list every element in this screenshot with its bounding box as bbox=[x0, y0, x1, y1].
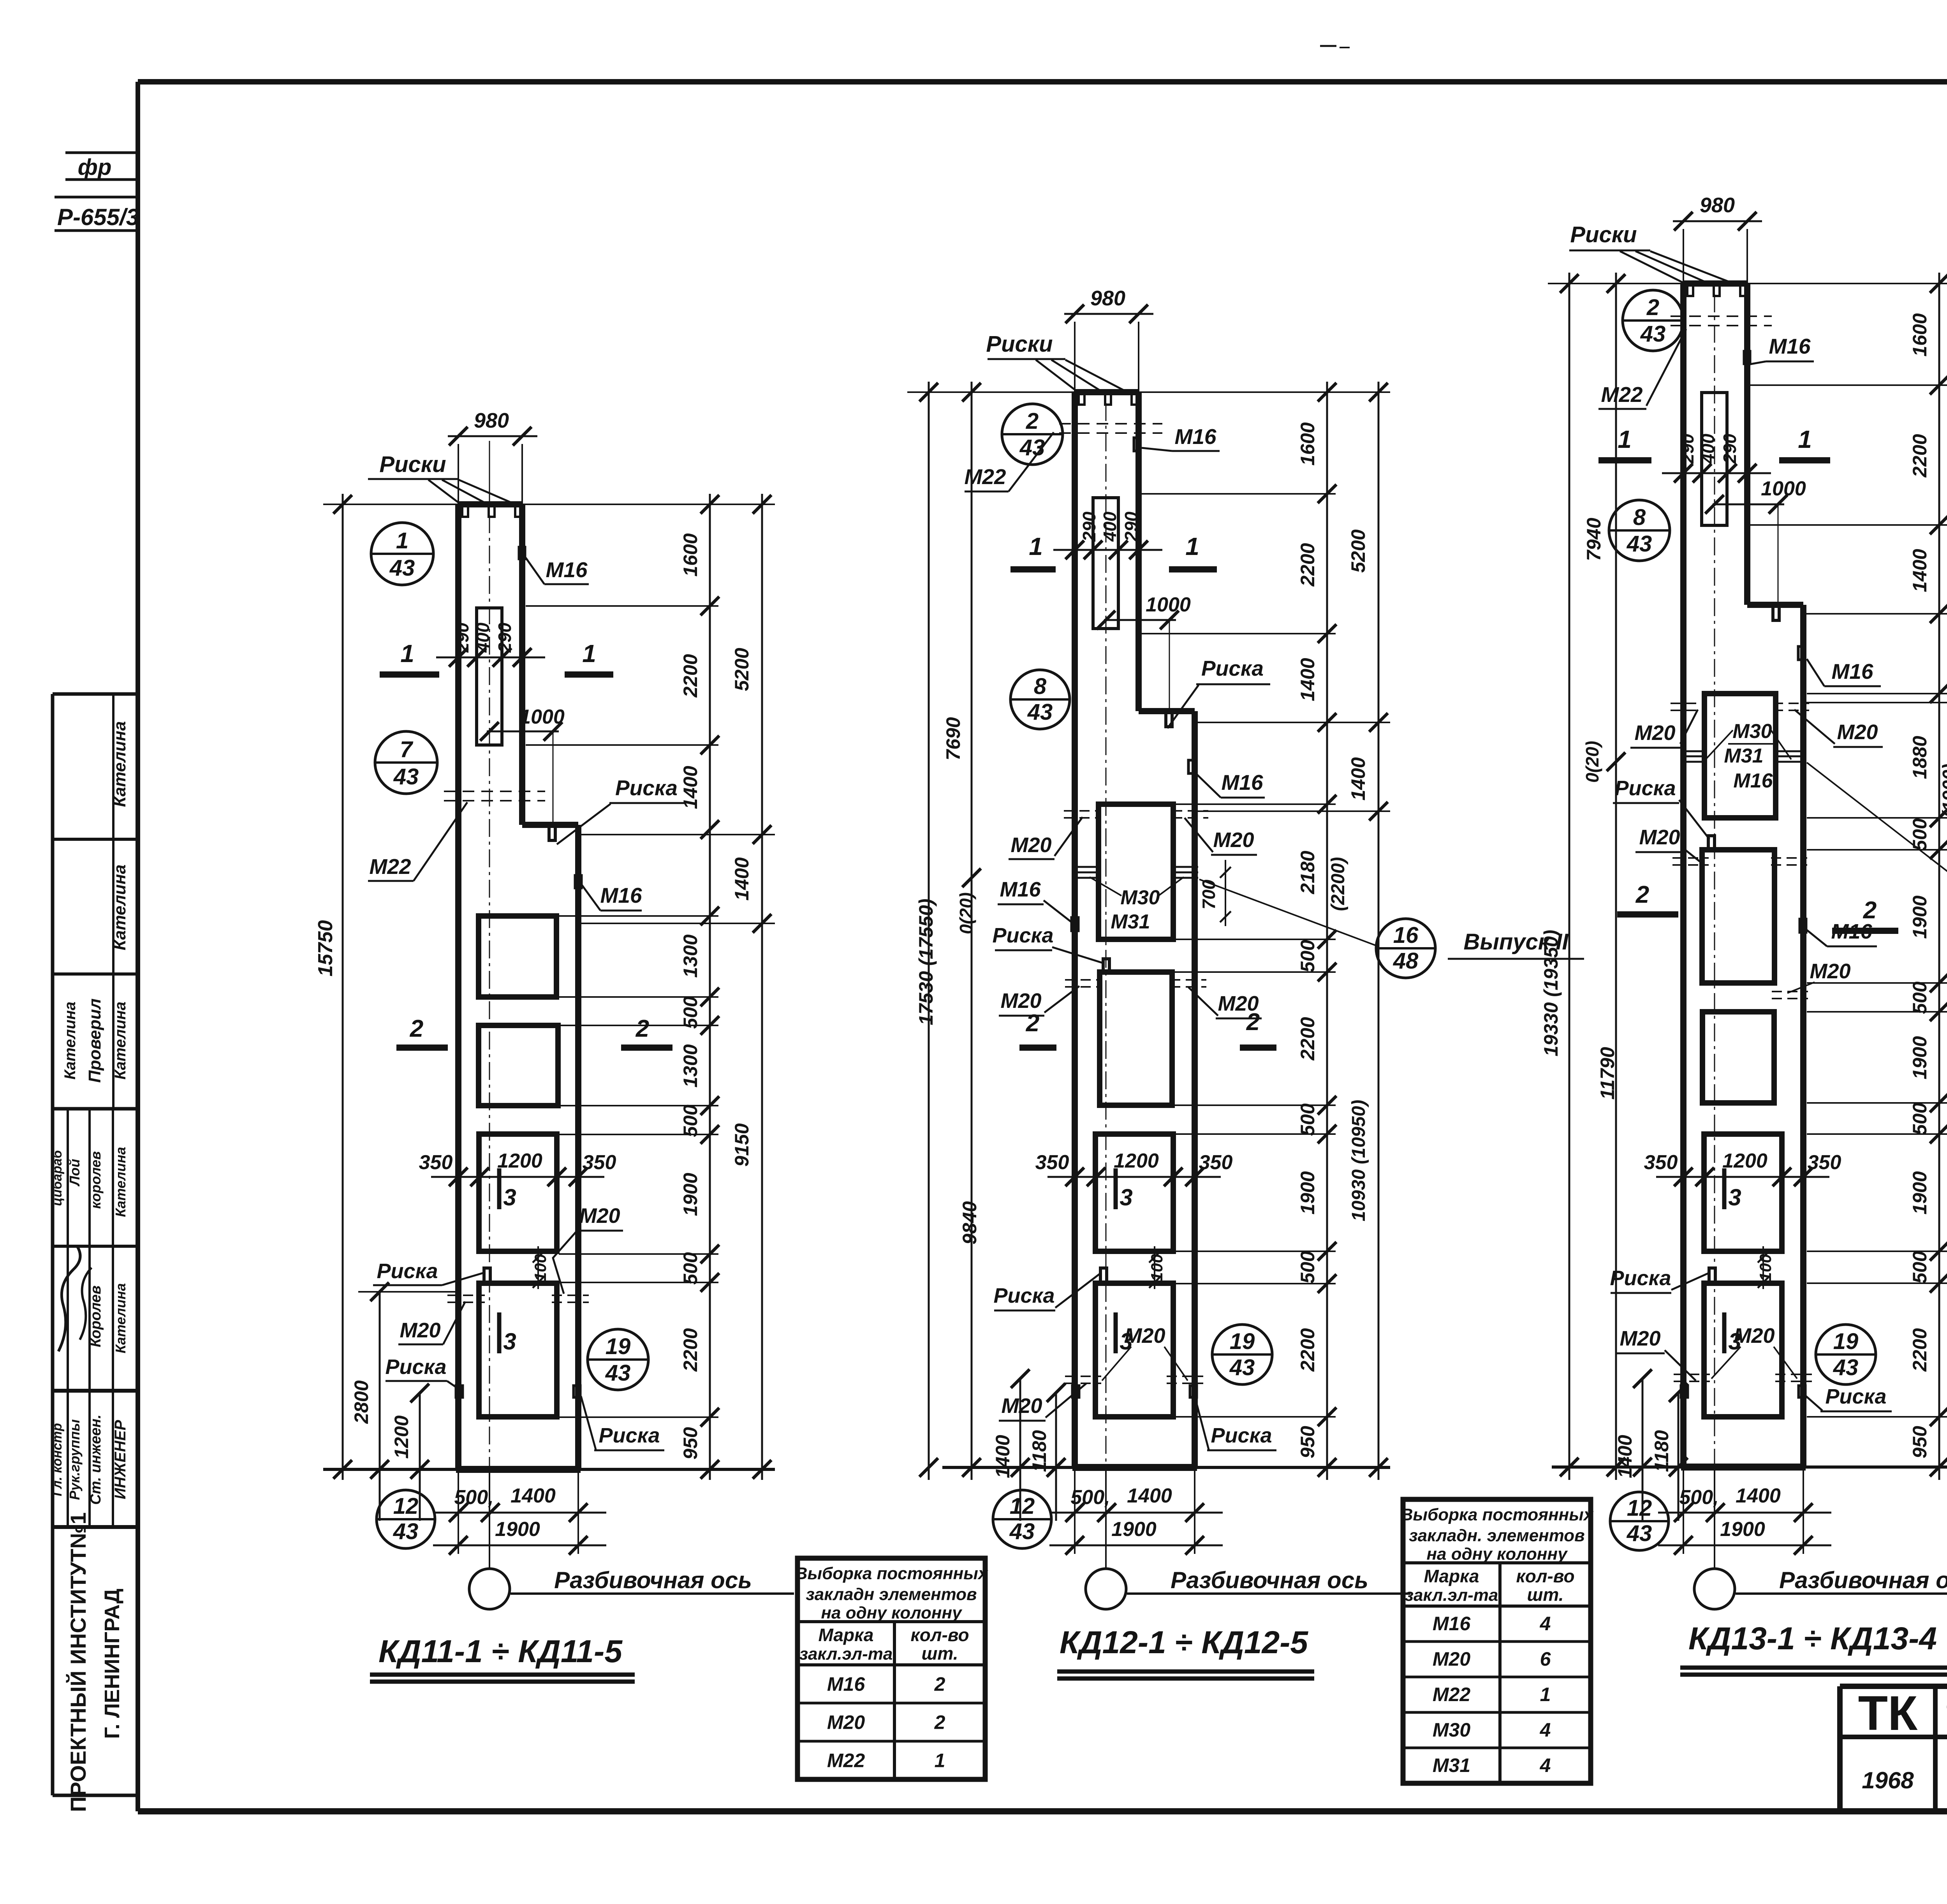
svg-text:12: 12 bbox=[393, 1494, 419, 1519]
svg-text:Кателина: Кателина bbox=[112, 1002, 129, 1080]
svg-text:290: 290 bbox=[1121, 511, 1141, 542]
svg-text:7: 7 bbox=[400, 737, 414, 762]
svg-text:43: 43 bbox=[1640, 321, 1666, 347]
svg-text:(1900): (1900) bbox=[1939, 764, 1947, 818]
svg-text:2200: 2200 bbox=[1909, 1328, 1931, 1372]
svg-text:Риски: Риски bbox=[1570, 222, 1637, 247]
svg-text:0(20): 0(20) bbox=[956, 892, 976, 934]
svg-text:Кателина: Кателина bbox=[110, 721, 129, 807]
svg-text:350: 350 bbox=[1644, 1151, 1678, 1174]
svg-text:Риски: Риски bbox=[379, 452, 446, 477]
svg-text:980: 980 bbox=[1700, 194, 1735, 217]
svg-text:2: 2 bbox=[1635, 881, 1649, 908]
svg-text:1200: 1200 bbox=[1722, 1150, 1767, 1172]
svg-text:1: 1 bbox=[1029, 532, 1043, 560]
svg-text:12: 12 bbox=[1010, 1494, 1035, 1519]
svg-text:М30: М30 bbox=[1120, 886, 1160, 909]
svg-text:10930 (10950): 10930 (10950) bbox=[1348, 1100, 1369, 1221]
svg-text:16: 16 bbox=[1393, 923, 1419, 948]
svg-text:М20: М20 bbox=[1810, 960, 1850, 983]
svg-text:9840: 9840 bbox=[959, 1201, 981, 1244]
svg-text:КД13-1 ÷ КД13-4: КД13-1 ÷ КД13-4 bbox=[1688, 1621, 1937, 1656]
svg-text:290: 290 bbox=[1720, 433, 1740, 464]
svg-text:500: 500 bbox=[680, 996, 701, 1029]
svg-text:Риска: Риска bbox=[599, 1424, 660, 1447]
svg-text:М16: М16 bbox=[1000, 878, 1041, 901]
svg-text:1400: 1400 bbox=[1347, 757, 1369, 800]
svg-text:Риска: Риска bbox=[377, 1259, 438, 1283]
svg-text:М31: М31 bbox=[1433, 1754, 1470, 1776]
svg-text:закладн. элементов: закладн. элементов bbox=[1409, 1526, 1585, 1545]
svg-text:М20: М20 bbox=[1000, 989, 1041, 1013]
svg-text:2: 2 bbox=[636, 1015, 649, 1042]
svg-text:1900: 1900 bbox=[1909, 1036, 1931, 1079]
svg-text:Кателина: Кателина bbox=[113, 1147, 129, 1217]
svg-text:Риски: Риски bbox=[986, 331, 1053, 357]
svg-text:М20: М20 bbox=[1837, 720, 1878, 744]
svg-text:1: 1 bbox=[1540, 1684, 1551, 1705]
svg-text:950: 950 bbox=[1909, 1426, 1931, 1458]
svg-text:М20: М20 bbox=[1734, 1324, 1774, 1347]
svg-text:350: 350 bbox=[419, 1151, 453, 1174]
svg-text:950: 950 bbox=[680, 1427, 701, 1460]
svg-text:1880: 1880 bbox=[1909, 736, 1931, 779]
svg-text:кол-во: кол-во bbox=[910, 1625, 969, 1645]
svg-text:6: 6 bbox=[1540, 1648, 1551, 1670]
svg-text:М20: М20 bbox=[1620, 1327, 1660, 1350]
svg-text:М20: М20 bbox=[579, 1204, 620, 1228]
svg-text:закладн элементов: закладн элементов bbox=[806, 1585, 977, 1604]
svg-text:1600: 1600 bbox=[1297, 422, 1319, 465]
svg-text:М20: М20 bbox=[827, 1712, 865, 1733]
svg-text:3: 3 bbox=[1120, 1184, 1132, 1210]
svg-text:43: 43 bbox=[1627, 1521, 1652, 1546]
svg-text:17530 (17550): 17530 (17550) bbox=[915, 898, 937, 1025]
svg-text:ПРОЕКТНЫЙ ИНСТИТУТ№1: ПРОЕКТНЫЙ ИНСТИТУТ№1 bbox=[66, 1512, 90, 1812]
svg-text:19: 19 bbox=[606, 1334, 631, 1359]
svg-text:2800: 2800 bbox=[350, 1380, 372, 1424]
svg-text:1400: 1400 bbox=[992, 1435, 1014, 1478]
svg-text:кол-во: кол-во bbox=[1516, 1566, 1574, 1586]
svg-text:1: 1 bbox=[1185, 532, 1199, 560]
svg-text:7690: 7690 bbox=[942, 717, 964, 760]
svg-text:43: 43 bbox=[393, 764, 419, 789]
svg-text:М22: М22 bbox=[1433, 1684, 1470, 1705]
svg-text:700: 700 bbox=[1199, 879, 1219, 909]
svg-text:(2200): (2200) bbox=[1328, 857, 1348, 911]
svg-text:3: 3 bbox=[503, 1328, 516, 1354]
svg-text:Кателина: Кателина bbox=[110, 865, 129, 950]
svg-text:М22: М22 bbox=[965, 465, 1006, 489]
svg-text:Г. ЛЕНИНГРАД: Г. ЛЕНИНГРАД bbox=[100, 1589, 124, 1739]
svg-text:500,: 500, bbox=[1679, 1486, 1718, 1509]
svg-text:5200: 5200 bbox=[1347, 529, 1369, 572]
svg-text:М20: М20 bbox=[1124, 1324, 1165, 1347]
svg-text:1968: 1968 bbox=[1862, 1767, 1914, 1793]
svg-text:1200: 1200 bbox=[497, 1150, 542, 1172]
svg-text:12: 12 bbox=[1627, 1495, 1652, 1521]
svg-text:2: 2 bbox=[410, 1015, 423, 1042]
svg-text:19330 (19350): 19330 (19350) bbox=[1540, 930, 1562, 1056]
svg-text:2200: 2200 bbox=[1909, 434, 1931, 477]
svg-text:1400: 1400 bbox=[1736, 1485, 1781, 1507]
svg-text:2: 2 bbox=[934, 1712, 945, 1733]
svg-text:фр: фр bbox=[78, 155, 112, 180]
svg-text:Выборка постоянных: Выборка постоянных bbox=[1401, 1505, 1594, 1524]
svg-text:Риска: Риска bbox=[1211, 1424, 1272, 1447]
svg-text:43: 43 bbox=[1009, 1519, 1035, 1544]
svg-text:2200: 2200 bbox=[680, 654, 701, 697]
svg-text:100: 100 bbox=[1756, 1254, 1774, 1281]
svg-text:на одну колонну: на одну колонну bbox=[821, 1603, 963, 1622]
svg-text:1400: 1400 bbox=[511, 1485, 556, 1507]
svg-text:350: 350 bbox=[1199, 1151, 1233, 1174]
svg-text:1: 1 bbox=[1618, 425, 1632, 453]
svg-text:500,: 500, bbox=[454, 1486, 493, 1509]
svg-text:350: 350 bbox=[583, 1151, 616, 1174]
svg-text:1900: 1900 bbox=[1297, 1171, 1319, 1214]
svg-text:980: 980 bbox=[474, 409, 509, 432]
svg-text:350: 350 bbox=[1035, 1151, 1069, 1174]
svg-text:1300: 1300 bbox=[680, 1044, 701, 1087]
svg-text:1900: 1900 bbox=[495, 1518, 540, 1541]
svg-text:500: 500 bbox=[680, 1104, 701, 1137]
svg-text:М20: М20 bbox=[1010, 833, 1051, 857]
svg-text:2200: 2200 bbox=[1297, 1328, 1319, 1372]
svg-text:Риска: Риска bbox=[1201, 656, 1264, 680]
svg-text:500,: 500, bbox=[1070, 1486, 1110, 1509]
svg-text:400: 400 bbox=[473, 622, 493, 653]
svg-text:5200: 5200 bbox=[731, 648, 753, 691]
svg-text:3: 3 bbox=[503, 1184, 516, 1210]
svg-text:шт.: шт. bbox=[922, 1643, 958, 1664]
svg-text:1400: 1400 bbox=[1297, 658, 1319, 701]
svg-text:1000: 1000 bbox=[1146, 594, 1191, 616]
svg-text:Марка: Марка bbox=[818, 1625, 873, 1645]
svg-text:1900: 1900 bbox=[1909, 1171, 1931, 1214]
svg-text:Кателина: Кателина bbox=[113, 1283, 129, 1353]
svg-text:2: 2 bbox=[1863, 897, 1877, 924]
svg-text:1200: 1200 bbox=[1114, 1150, 1159, 1172]
svg-text:1: 1 bbox=[396, 528, 408, 553]
svg-text:19: 19 bbox=[1833, 1329, 1859, 1354]
svg-text:Риска: Риска bbox=[993, 1284, 1054, 1307]
svg-text:500: 500 bbox=[1909, 1103, 1931, 1135]
svg-text:4: 4 bbox=[1540, 1719, 1551, 1741]
svg-text:М20: М20 bbox=[1433, 1648, 1470, 1670]
svg-text:9150: 9150 bbox=[731, 1123, 753, 1166]
svg-text:Р-655/3: Р-655/3 bbox=[57, 204, 139, 230]
svg-text:КД12-1 ÷ КД12-5: КД12-1 ÷ КД12-5 bbox=[1060, 1625, 1308, 1660]
svg-text:М16: М16 bbox=[1769, 334, 1811, 358]
svg-text:1400: 1400 bbox=[1127, 1485, 1172, 1507]
svg-text:350: 350 bbox=[1808, 1151, 1841, 1174]
svg-text:2: 2 bbox=[934, 1673, 945, 1695]
svg-text:980: 980 bbox=[1090, 287, 1125, 310]
svg-text:500: 500 bbox=[1297, 940, 1319, 972]
svg-text:1900: 1900 bbox=[1111, 1518, 1157, 1541]
svg-text:Риска: Риска bbox=[1825, 1385, 1886, 1408]
svg-text:1900: 1900 bbox=[1720, 1518, 1765, 1541]
svg-text:15750: 15750 bbox=[314, 920, 337, 977]
svg-text:290: 290 bbox=[1079, 511, 1099, 542]
svg-text:Выборка постоянных: Выборка постоянных bbox=[795, 1564, 988, 1583]
svg-text:43: 43 bbox=[1833, 1355, 1859, 1380]
svg-text:М16: М16 bbox=[1733, 770, 1773, 792]
svg-text:100: 100 bbox=[1148, 1254, 1166, 1281]
svg-text:на одну колонну: на одну колонну bbox=[1426, 1545, 1568, 1564]
svg-text:8: 8 bbox=[1633, 505, 1646, 530]
svg-text:Разбивочная ось: Разбивочная ось bbox=[1171, 1567, 1368, 1593]
svg-text:2: 2 bbox=[1026, 1010, 1039, 1037]
svg-text:М20: М20 bbox=[1639, 826, 1680, 849]
svg-text:1: 1 bbox=[582, 639, 596, 668]
svg-text:М22: М22 bbox=[1601, 382, 1643, 407]
svg-text:1180: 1180 bbox=[1028, 1430, 1050, 1472]
svg-text:4: 4 bbox=[1540, 1754, 1551, 1776]
svg-text:2: 2 bbox=[1246, 1009, 1260, 1036]
svg-text:43: 43 bbox=[1027, 699, 1053, 725]
svg-text:2: 2 bbox=[1026, 409, 1039, 434]
svg-text:закл.эл-та: закл.эл-та bbox=[799, 1645, 893, 1664]
svg-text:М16: М16 bbox=[546, 558, 588, 582]
svg-text:Риска: Риска bbox=[992, 924, 1053, 947]
svg-text:М16: М16 bbox=[1832, 659, 1873, 683]
svg-text:1400: 1400 bbox=[1909, 549, 1931, 592]
svg-text:43: 43 bbox=[1229, 1355, 1255, 1380]
svg-text:500: 500 bbox=[1297, 1103, 1319, 1136]
svg-text:1900: 1900 bbox=[680, 1173, 701, 1216]
svg-text:290: 290 bbox=[495, 622, 515, 653]
svg-text:2200: 2200 bbox=[680, 1328, 701, 1372]
svg-text:Риска: Риска bbox=[385, 1355, 446, 1379]
svg-text:500: 500 bbox=[1297, 1251, 1319, 1284]
svg-text:290: 290 bbox=[1677, 433, 1697, 464]
svg-text:цибараб: цибараб bbox=[50, 1150, 65, 1206]
svg-text:8: 8 bbox=[1034, 674, 1047, 699]
svg-text:1400: 1400 bbox=[731, 857, 753, 900]
svg-text:1180: 1180 bbox=[1651, 1430, 1672, 1472]
svg-text:1: 1 bbox=[400, 639, 414, 668]
svg-text:М20: М20 bbox=[1001, 1394, 1042, 1418]
svg-text:М31: М31 bbox=[1724, 745, 1763, 767]
svg-text:М20: М20 bbox=[400, 1319, 440, 1342]
svg-text:1600: 1600 bbox=[1909, 313, 1931, 356]
svg-text:М20: М20 bbox=[1213, 828, 1254, 852]
svg-text:3: 3 bbox=[1728, 1184, 1741, 1210]
svg-text:43: 43 bbox=[393, 1519, 419, 1544]
svg-text:М30: М30 bbox=[1433, 1719, 1470, 1741]
svg-text:1300: 1300 bbox=[680, 934, 701, 978]
svg-text:48: 48 bbox=[1393, 948, 1419, 974]
svg-text:М30: М30 bbox=[1732, 720, 1772, 743]
svg-text:2180: 2180 bbox=[1297, 851, 1319, 894]
svg-text:Ст. инжеен.: Ст. инжеен. bbox=[88, 1414, 104, 1505]
svg-text:1600: 1600 bbox=[680, 533, 701, 576]
svg-text:2: 2 bbox=[1646, 295, 1659, 320]
svg-text:100: 100 bbox=[531, 1254, 549, 1281]
svg-text:Гл. констр: Гл. констр bbox=[50, 1423, 65, 1496]
svg-text:ИНЖЕНЕР: ИНЖЕНЕР bbox=[112, 1420, 129, 1499]
svg-text:М16: М16 bbox=[600, 883, 642, 907]
svg-text:1200: 1200 bbox=[391, 1415, 412, 1458]
svg-text:М16: М16 bbox=[1222, 770, 1263, 794]
svg-text:Рук.группы: Рук.группы bbox=[67, 1419, 83, 1500]
svg-text:43: 43 bbox=[1627, 531, 1652, 557]
svg-text:1900: 1900 bbox=[1909, 895, 1931, 939]
svg-text:шт.: шт. bbox=[1527, 1585, 1564, 1605]
svg-text:11790: 11790 bbox=[1597, 1047, 1618, 1100]
svg-text:400: 400 bbox=[1100, 511, 1120, 542]
svg-text:Риска: Риска bbox=[615, 776, 678, 800]
svg-text:М16: М16 bbox=[827, 1673, 865, 1695]
svg-text:43: 43 bbox=[389, 555, 415, 581]
svg-text:М22: М22 bbox=[827, 1750, 865, 1772]
svg-text:1000: 1000 bbox=[1761, 477, 1806, 500]
svg-text:1400: 1400 bbox=[1614, 1435, 1636, 1478]
svg-text:290: 290 bbox=[452, 622, 472, 653]
svg-text:М16: М16 bbox=[1175, 424, 1216, 449]
svg-text:Лой: Лой bbox=[67, 1159, 83, 1187]
svg-text:500: 500 bbox=[1909, 818, 1931, 851]
svg-text:М22: М22 bbox=[370, 854, 411, 879]
svg-text:500: 500 bbox=[680, 1252, 701, 1285]
svg-text:2200: 2200 bbox=[1297, 1017, 1319, 1060]
svg-text:ТК: ТК bbox=[1858, 1686, 1918, 1740]
svg-text:400: 400 bbox=[1698, 433, 1718, 464]
svg-text:19: 19 bbox=[1230, 1329, 1255, 1354]
svg-text:Риска: Риска bbox=[1610, 1266, 1671, 1290]
svg-text:7940: 7940 bbox=[1583, 518, 1605, 561]
svg-text:М31: М31 bbox=[1111, 911, 1150, 933]
svg-text:1: 1 bbox=[935, 1750, 945, 1772]
svg-text:2200: 2200 bbox=[1297, 543, 1319, 587]
svg-text:Риска: Риска bbox=[1614, 777, 1676, 800]
svg-text:закл.эл-та: закл.эл-та bbox=[1405, 1586, 1498, 1605]
svg-text:500: 500 bbox=[1909, 981, 1931, 1014]
svg-text:Кателина: Кателина bbox=[62, 1002, 79, 1080]
svg-text:500: 500 bbox=[1909, 1251, 1931, 1284]
svg-text:Разбивочная ось: Разбивочная ось bbox=[1779, 1567, 1947, 1593]
svg-text:950: 950 bbox=[1297, 1426, 1319, 1458]
svg-text:Марка: Марка bbox=[1424, 1566, 1479, 1586]
svg-text:1400: 1400 bbox=[680, 766, 701, 809]
svg-text:Разбивочная ось: Разбивочная ось bbox=[554, 1567, 752, 1593]
svg-text:королев: королев bbox=[88, 1151, 104, 1209]
svg-text:Королев: Королев bbox=[88, 1286, 104, 1347]
svg-text:М20: М20 bbox=[1634, 721, 1675, 745]
svg-text:4: 4 bbox=[1540, 1613, 1551, 1635]
svg-text:1: 1 bbox=[1798, 425, 1812, 453]
svg-text:М16: М16 bbox=[1433, 1613, 1471, 1635]
svg-text:Проверил: Проверил bbox=[85, 999, 104, 1083]
svg-text:43: 43 bbox=[605, 1360, 631, 1386]
svg-text:КД11-1 ÷ КД11-5: КД11-1 ÷ КД11-5 bbox=[378, 1634, 623, 1669]
svg-text:0(20): 0(20) bbox=[1582, 741, 1602, 782]
